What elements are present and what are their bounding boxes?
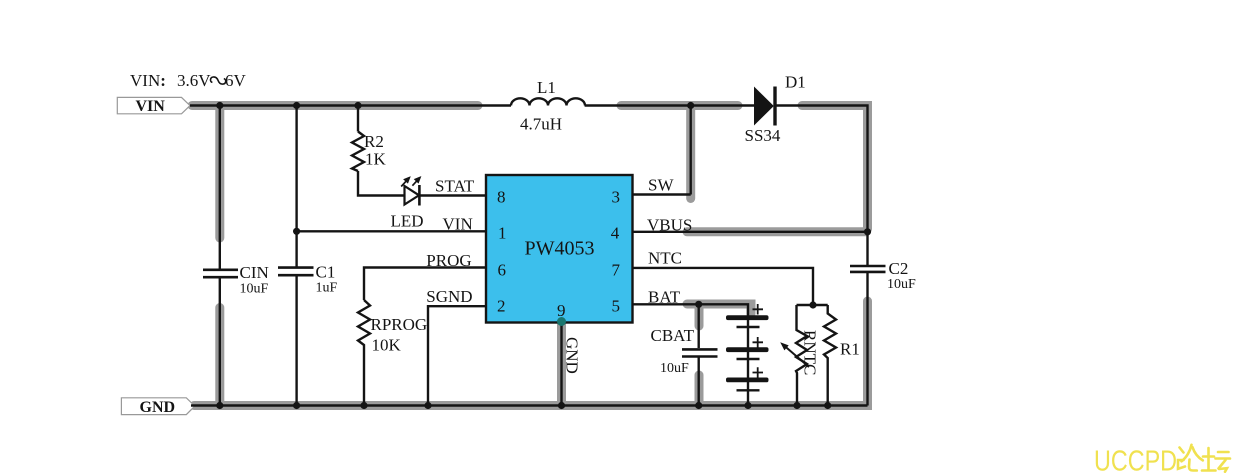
svg-text:1uF: 1uF	[316, 281, 338, 296]
node: junction dot SGND on GND rail	[424, 402, 431, 409]
watermark UCCPD forum text	[1094, 445, 1230, 473]
svg-text:2: 2	[497, 297, 506, 316]
node: junction dot R1 bottom	[824, 402, 831, 409]
svg-text:6: 6	[498, 261, 507, 280]
wire: CBAT vertical lower	[698, 358, 700, 406]
svg-text:SGND: SGND	[426, 287, 472, 306]
inductor L1 coil	[511, 98, 585, 105]
wire: BAT pin 5 wire	[633, 304, 749, 315]
node: junction dot C1 on top rail	[293, 102, 300, 109]
battery cell 2 plus	[753, 337, 764, 348]
svg-text:6V: 6V	[225, 71, 247, 90]
svg-text:VIN: VIN	[136, 98, 166, 115]
svg-text:NTC: NTC	[648, 249, 682, 268]
wire: top rail VIN tag to L1	[190, 104, 511, 106]
node: junction dot R2 on top rail	[354, 102, 361, 109]
diode D1 cathode bar	[773, 87, 776, 126]
LED cathode bar	[418, 185, 421, 206]
resistor RPROG zigzag	[358, 300, 370, 406]
wire: SW horizontal to IC pin 3	[633, 193, 691, 195]
svg-text:3.6V: 3.6V	[177, 71, 211, 90]
node: junction dot CBAT on GND rail	[695, 402, 702, 409]
svg-text:RPROG: RPROG	[371, 315, 428, 334]
svg-text:4: 4	[611, 224, 620, 243]
GND tag	[121, 398, 194, 416]
capacitor CIN plates	[203, 270, 238, 277]
svg-text:C2: C2	[889, 259, 909, 278]
svg-text:PROG: PROG	[426, 251, 471, 270]
hanzi lun	[1178, 445, 1203, 471]
node: junction dot C1 on GND rail	[293, 402, 300, 409]
wire: GND rail	[191, 404, 868, 406]
gray highlight: top rail mid segment (L1 to SW node to diode)	[621, 101, 738, 110]
battery cell 3 negative plate	[737, 389, 760, 391]
gray highlight: VBUS wire	[687, 227, 866, 236]
node: junction dot RNTC bottom	[793, 402, 800, 409]
thermistor RNTC arrow	[780, 342, 809, 367]
node: junction dot CIN on GND rail	[216, 402, 223, 409]
wire: VIN pin 1 wire	[297, 230, 486, 232]
svg-text:7: 7	[612, 261, 621, 280]
VIN tag	[117, 97, 190, 115]
svg-text:SS34: SS34	[745, 126, 781, 145]
node: junction dot SW on top rail	[687, 102, 694, 109]
gray highlight: CBAT lower stub	[695, 375, 704, 404]
wire: L1 to D1 anode	[585, 104, 755, 106]
wire: RNTC/R1 top bar	[797, 304, 828, 306]
battery cell 1 negative plate	[737, 326, 760, 328]
title VIN: 3.6V~6V	[130, 71, 247, 90]
svg-text:CIN: CIN	[240, 263, 269, 282]
svg-text:GND: GND	[140, 399, 176, 416]
node: pin 9 teal dot	[557, 317, 566, 326]
diode D1 triangle	[754, 87, 774, 126]
svg-text:4.7uH: 4.7uH	[520, 115, 562, 134]
capacitor CBAT plates	[682, 349, 718, 356]
svg-text:C1: C1	[316, 263, 336, 282]
node: junction dot CBAT on BAT wire	[695, 301, 702, 308]
svg-text:LED: LED	[391, 212, 424, 231]
gray highlight: diode output to top-right corner down to VBUS node	[802, 106, 868, 230]
wire: NTC pin 7 wire	[633, 268, 814, 305]
gray highlight: BAT wire to battery	[687, 304, 751, 314]
wire: LED cathode to IC pin 8	[419, 194, 486, 196]
node: junction dot C1 on VIN pin wire	[293, 228, 300, 235]
capacitor C2 plates	[850, 266, 886, 272]
battery cell 3 positive plate	[726, 378, 769, 383]
node: junction dot CIN on top rail	[216, 102, 223, 109]
wire: C1 branch vertical upper	[295, 106, 297, 267]
node: junction dot RPROG on GND rail	[360, 402, 367, 409]
svg-text:1K: 1K	[365, 150, 387, 169]
svg-text:R2: R2	[364, 132, 384, 151]
LED arrows	[401, 178, 420, 187]
svg-text:L1: L1	[537, 78, 556, 97]
svg-text:VIN:: VIN:	[130, 71, 166, 90]
svg-text:SW: SW	[648, 175, 674, 194]
battery cell 1 plus	[753, 304, 764, 315]
svg-text:3: 3	[612, 188, 621, 207]
svg-text:GND: GND	[563, 337, 582, 374]
svg-text:10uF: 10uF	[887, 277, 916, 292]
node: junction dot NTC node	[809, 301, 816, 308]
LED triangle	[405, 186, 420, 205]
svg-text:10K: 10K	[372, 336, 402, 355]
svg-text:10uF: 10uF	[660, 361, 689, 376]
svg-text:UCCPD: UCCPD	[1094, 446, 1177, 473]
svg-text:PW4053: PW4053	[525, 238, 595, 260]
battery cell 3 plus	[753, 367, 764, 378]
wire: R2 to LED anode	[358, 171, 404, 196]
gray highlight: CIN branch upper stub	[215, 106, 224, 239]
node: junction dot pin9 on GND rail	[558, 402, 565, 409]
svg-text:RNTC: RNTC	[801, 330, 820, 375]
svg-text:D1: D1	[785, 73, 806, 92]
gray highlight: top rail left segment	[192, 101, 478, 110]
wire: R2 branch from rail	[357, 106, 359, 132]
svg-text:5: 5	[612, 297, 621, 316]
battery BT1 internal wire	[747, 316, 749, 406]
gray highlight: SW branch vertical	[686, 106, 695, 199]
battery cell 2 negative plate	[737, 358, 760, 360]
hanzi tan	[1202, 448, 1230, 472]
IC U1 PW4053 body	[486, 175, 633, 323]
capacitor C1 plates	[278, 268, 314, 276]
wire: CIN branch vertical upper	[219, 106, 221, 270]
svg-text:STAT: STAT	[435, 176, 475, 195]
wire: right vertical below C2 to GND rail	[866, 272, 868, 406]
svg-text:VIN: VIN	[443, 215, 473, 234]
wire: C1 branch vertical lower	[295, 276, 297, 406]
wire: IC pin 9 to GND rail	[560, 322, 562, 406]
node: junction dot battery on GND rail	[744, 402, 751, 409]
svg-text:10uF: 10uF	[240, 282, 269, 297]
thermistor RNTC zigzag	[796, 305, 807, 406]
resistor R2 zigzag	[352, 132, 364, 172]
battery cell 2 positive plate	[726, 347, 769, 352]
wire: CIN branch vertical lower	[219, 278, 221, 406]
gray highlight: IC pin9 GND wire	[557, 322, 566, 403]
wire: CBAT vertical upper	[698, 304, 700, 348]
svg-text:1: 1	[498, 224, 507, 243]
battery cell 1 positive plate	[726, 315, 769, 320]
node: junction dot VBUS right	[864, 228, 871, 235]
svg-text:CBAT: CBAT	[651, 326, 695, 345]
wire: PROG pin 6 wire	[364, 268, 486, 301]
wire: D1 cathode to top-right corner down to C2	[777, 106, 868, 266]
svg-text:R1: R1	[840, 340, 860, 359]
resistor R1 zigzag	[824, 305, 836, 406]
gray highlight: CIN branch lower stub	[215, 308, 224, 405]
svg-text:8: 8	[497, 188, 506, 207]
wire: SW branch vertical	[690, 106, 692, 195]
wire: VBUS pin 4 wire	[633, 231, 868, 233]
wire: SGND pin 2 wire	[428, 306, 486, 405]
gray highlight: CBAT upper stub	[695, 305, 704, 326]
gray highlight: right vertical below C2 joining GND rail back to GND tag	[194, 301, 868, 406]
